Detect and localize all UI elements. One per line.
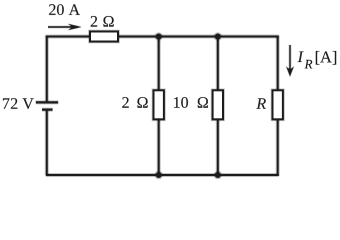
label 2 ohm (top resistor) bbox=[91, 16, 114, 27]
voltage source 72V battery plates bbox=[36, 102, 58, 109]
junction node bottom-right bbox=[214, 171, 223, 180]
junction node top-right bbox=[214, 32, 223, 41]
resistor 2 ohm vertical branch bbox=[154, 90, 164, 119]
label 72 V bbox=[3, 98, 34, 109]
resistor 2 ohm horizontal top bbox=[90, 32, 118, 42]
wire top left segment (corner to resistor 2ohm) bbox=[46, 35, 90, 39]
label IR subscript R bbox=[305, 60, 313, 69]
wire branch 10ohm lower bbox=[216, 118, 220, 175]
resistor R vertical branch bbox=[273, 90, 283, 119]
resistor 10 ohm vertical branch bbox=[213, 90, 223, 119]
wire branch 2ohm lower bbox=[157, 118, 161, 175]
wire branch 2ohm upper bbox=[157, 37, 161, 92]
current arrow 20A (shaft and head) bbox=[48, 24, 81, 30]
wire left upper (source top to battery) bbox=[45, 36, 49, 104]
wire branch 10ohm upper bbox=[216, 37, 220, 92]
wire right upper (top-right corner to resistor R) bbox=[276, 36, 280, 92]
label 20 A bbox=[49, 4, 80, 15]
wire right lower (resistor R to bottom-right corner) bbox=[276, 118, 280, 176]
label 10 ohm bbox=[174, 97, 208, 108]
wire left lower (battery to bottom) bbox=[45, 110, 49, 175]
label unit [A] bbox=[316, 51, 336, 65]
label IR current symbol I bbox=[298, 52, 304, 62]
junction node bottom-left bbox=[154, 171, 163, 180]
current arrow IR downward (shaft and head) bbox=[286, 45, 293, 76]
junction node top-left bbox=[154, 32, 163, 41]
wire bottom segment bbox=[46, 173, 279, 177]
label 2 ohm (vertical branch) bbox=[122, 97, 147, 108]
label R bbox=[256, 98, 266, 108]
wire top right segment (resistor 2ohm to top-right corner) bbox=[118, 35, 279, 39]
